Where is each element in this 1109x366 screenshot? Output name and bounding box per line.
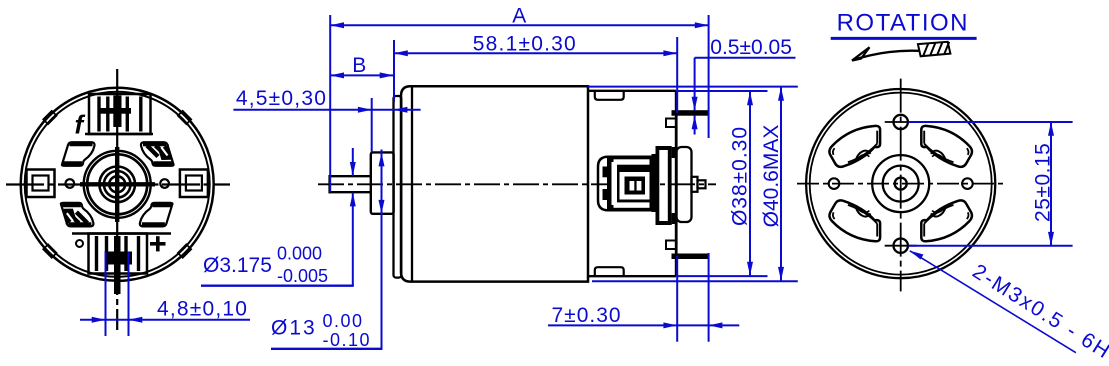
leader M3 arrow	[910, 251, 924, 260]
dim Ø3.175 leader upper	[352, 148, 354, 176]
left horizontal centerline	[6, 183, 230, 185]
vent slot NE	[921, 126, 972, 167]
dim Ø3.175 underline	[201, 285, 354, 287]
front end plate	[394, 96, 402, 278]
dim 4.8 extension left	[105, 252, 107, 336]
rear bearing boss	[677, 147, 692, 222]
dim Ø38 extension top	[677, 90, 768, 92]
rim tab SW	[43, 244, 56, 257]
dim 4.5 line	[233, 109, 420, 111]
svg-text:58.1±0.30: 58.1±0.30	[473, 32, 577, 55]
endcap top notch	[595, 91, 624, 100]
shaft	[330, 175, 372, 193]
svg-text:A: A	[512, 4, 526, 27]
dim 7 arrows	[663, 322, 722, 328]
plus mark bottom right	[150, 236, 166, 251]
dim 7 extension left	[676, 256, 678, 342]
vent TR window	[141, 142, 174, 166]
connector white slots	[612, 159, 650, 207]
left view dim 4.8	[80, 252, 250, 336]
center rings	[99, 167, 135, 203]
rotation arrow arc	[853, 51, 919, 61]
svg-text:Ø3.175: Ø3.175	[203, 254, 272, 277]
endcap bottom notch	[595, 267, 624, 276]
connector latch blocks	[603, 167, 611, 201]
right rivet hole	[962, 178, 973, 189]
dim 0.5 leader vertical upper	[694, 58, 696, 111]
connector inner white cells	[630, 181, 642, 191]
dim B line	[330, 74, 393, 76]
commutator circle	[87, 154, 147, 214]
bottom terminal stem	[114, 236, 121, 294]
rim tab NE	[178, 111, 191, 124]
svg-text:Ø13: Ø13	[271, 317, 317, 340]
dim 25 extension bottom	[909, 245, 1073, 247]
dim Ø40.6 line	[780, 87, 782, 281]
right square tab outer	[180, 170, 208, 198]
rear stub washer	[692, 177, 698, 192]
collar (front bushing boss)	[371, 152, 394, 213]
vent slot SW	[829, 200, 880, 241]
dim 58.1 extension left	[393, 40, 395, 102]
dim 4.8 arrows	[92, 317, 143, 323]
brush ring circle	[84, 151, 151, 218]
dim 58.1 line	[394, 52, 677, 54]
svg-text:B: B	[352, 54, 366, 77]
connector body black	[607, 157, 655, 211]
left vertical centerline	[116, 69, 118, 330]
dim A line	[330, 24, 708, 26]
connector mount plate bars	[652, 146, 677, 225]
dim 58.1 extension right	[676, 37, 678, 113]
dim A extension right lower	[708, 253, 710, 342]
bottom housing base line	[72, 232, 171, 235]
top housing bars	[99, 97, 141, 132]
bold crosshair center	[115, 147, 119, 222]
bottom terminal blob	[105, 252, 133, 265]
top screw hole	[885, 115, 917, 129]
top brush housing	[89, 94, 151, 134]
dim Ø13 arrows	[379, 153, 385, 214]
right outer circle	[806, 89, 995, 278]
dim 4.8 extension right	[128, 252, 130, 336]
vent BR window	[140, 203, 173, 227]
dim Ø38 line	[749, 92, 751, 276]
dim Ø40.6 arrows	[778, 87, 784, 281]
svg-text:0.00: 0.00	[323, 311, 364, 331]
right view dims	[909, 122, 1076, 353]
left outer circle	[21, 88, 214, 281]
svg-text:25±0.15: 25±0.15	[1031, 143, 1054, 222]
left square tab inner	[33, 176, 49, 191]
dim 4.5 arrows	[358, 107, 408, 113]
brush slot bottom	[666, 241, 676, 250]
small circle bottom left	[76, 240, 83, 247]
svg-text:0.5±0.05: 0.5±0.05	[710, 36, 792, 59]
dim 58.1 arrows	[394, 50, 677, 56]
left square tab outer	[27, 170, 55, 198]
dim 4.5 extension	[371, 98, 373, 152]
dim Ø40.6 extension top	[588, 86, 798, 88]
dim 0.5 arrows	[692, 97, 698, 129]
vent BL window	[61, 203, 94, 227]
dim 7 line	[548, 324, 739, 326]
dim 25 arrows	[1048, 122, 1054, 246]
left rivet hole	[829, 178, 840, 189]
dim Ø3.175 leader lower	[352, 193, 354, 286]
left inner ring	[25, 92, 210, 277]
svg-text:-0.10: -0.10	[323, 330, 372, 350]
dim B arrows	[330, 72, 393, 78]
dim A extension left	[329, 15, 331, 192]
dim 25 line	[1050, 122, 1052, 246]
dim 25 extension top	[909, 121, 1073, 123]
endcap outline	[588, 91, 676, 276]
right center circles	[872, 155, 929, 212]
right vertical centerline	[900, 79, 902, 292]
brush slot top	[666, 119, 676, 128]
dim A arrows	[330, 22, 708, 28]
dim 4.8 line	[80, 319, 250, 321]
connector housing	[598, 157, 655, 211]
svg-text:4,8±0,10: 4,8±0,10	[157, 298, 248, 321]
top housing base line	[85, 133, 153, 136]
left rivet	[66, 179, 75, 188]
leader M3 line	[910, 251, 1076, 353]
motor can	[411, 87, 413, 282]
vent slot NW	[829, 126, 880, 167]
svg-text:7±0.30: 7±0.30	[552, 304, 622, 327]
dim Ø40.6 extension bottom	[592, 280, 798, 282]
dim Ø3.175 arrows	[350, 162, 356, 206]
vent slot SE	[921, 200, 972, 241]
right square tab inner	[186, 176, 202, 191]
svg-text:4,5±0,30: 4,5±0,30	[236, 87, 327, 110]
right rivet	[160, 179, 169, 188]
rear stub tip	[698, 180, 706, 188]
svg-text:Ø38±0.30: Ø38±0.30	[729, 126, 752, 226]
centerline middle view	[318, 183, 716, 185]
svg-text:Ø40.6MAX: Ø40.6MAX	[760, 125, 783, 228]
svg-text:ROTATION: ROTATION	[837, 10, 969, 37]
right horizontal centerline	[797, 183, 1004, 185]
bottom housing bars	[97, 236, 139, 271]
bottom screw hole	[885, 239, 917, 253]
dim 0.5 underline	[695, 57, 796, 59]
rim tab SE	[178, 244, 191, 257]
right inner ring	[810, 93, 992, 275]
svg-text:0.000: 0.000	[277, 244, 322, 264]
bottom brush housing	[89, 234, 148, 274]
dim A extension right upper	[708, 15, 710, 138]
svg-text:-0.005: -0.005	[277, 266, 328, 286]
rotation hatch tail	[918, 42, 951, 57]
dim Ø13 underline	[271, 348, 383, 350]
vent TL window	[62, 142, 95, 166]
bottom mounting flange	[672, 254, 708, 259]
rotation underline	[831, 37, 977, 40]
rotation arrowhead	[852, 47, 870, 60]
top cross screw	[100, 96, 131, 128]
rim tab NW	[43, 111, 56, 124]
dim 0.5 leader vertical lower	[694, 115, 696, 134]
connector inner black ring	[625, 177, 646, 195]
top mounting flange	[672, 111, 708, 116]
dim Ø38 arrows	[747, 92, 753, 276]
dim Ø38 extension bottom	[677, 275, 768, 277]
dim Ø13 line	[381, 150, 383, 349]
